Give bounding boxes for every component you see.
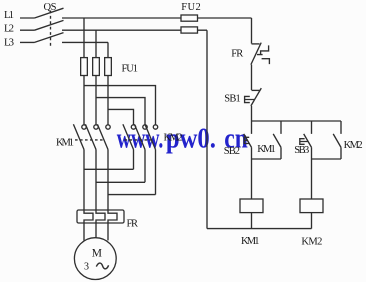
svg-text:M: M	[92, 247, 102, 259]
svg-text:SB1: SB1	[224, 93, 241, 104]
svg-text:L3: L3	[4, 38, 14, 49]
svg-text:SB3: SB3	[294, 145, 309, 156]
svg-text:KM2: KM2	[301, 237, 322, 248]
svg-text:FR: FR	[127, 218, 139, 229]
svg-text:KM1: KM1	[56, 137, 74, 148]
svg-text:L2: L2	[4, 23, 14, 34]
svg-text:FU1: FU1	[122, 64, 139, 75]
svg-text:FR: FR	[231, 48, 243, 59]
svg-text:SB2: SB2	[224, 146, 240, 157]
svg-text:FU2: FU2	[181, 2, 201, 13]
svg-text:KM1: KM1	[241, 236, 260, 247]
svg-text:3: 3	[84, 262, 89, 273]
svg-text:QS: QS	[44, 2, 57, 13]
svg-text:KM2: KM2	[164, 132, 183, 143]
svg-text:KM1: KM1	[257, 144, 276, 155]
svg-text:L1: L1	[4, 10, 14, 21]
svg-text:KM2: KM2	[344, 140, 363, 151]
